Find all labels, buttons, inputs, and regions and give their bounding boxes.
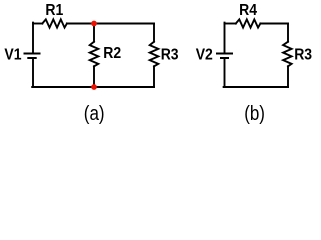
svg-text:R4: R4 bbox=[239, 3, 258, 20]
svg-text:R3: R3 bbox=[294, 47, 312, 64]
wire right upper (a) bbox=[153, 24, 155, 42]
wire left upper (b) bbox=[224, 23, 226, 54]
wire bottom (b) bbox=[224, 86, 288, 88]
junction node bottom (a) bbox=[91, 84, 97, 90]
svg-text:V1: V1 bbox=[4, 47, 21, 64]
wire top-right segment (b) bbox=[260, 23, 288, 25]
wire left lower (b) bbox=[224, 58, 226, 87]
svg-text:(a): (a) bbox=[84, 101, 105, 124]
wire top-right segment (a) bbox=[67, 23, 154, 25]
battery V2 long plate bbox=[217, 53, 232, 55]
battery V1 long plate bbox=[25, 53, 40, 55]
resistor R3 (a) bbox=[150, 42, 159, 67]
wire middle branch upper (a) bbox=[93, 24, 95, 42]
svg-text:R2: R2 bbox=[103, 46, 121, 63]
resistor R3 (b) bbox=[283, 42, 292, 67]
wire left lower (a) bbox=[32, 58, 34, 87]
wire top-left segment (a) bbox=[33, 23, 42, 25]
battery V1 short plate bbox=[28, 57, 35, 59]
wire bottom (a) bbox=[32, 86, 154, 88]
wire right lower (b) bbox=[287, 66, 289, 87]
resistor R2 bbox=[90, 42, 99, 67]
junction node top (a) bbox=[91, 21, 97, 27]
wire middle branch lower (a) bbox=[93, 66, 95, 87]
svg-text:R3: R3 bbox=[161, 47, 179, 64]
resistor R1 bbox=[42, 19, 67, 27]
wire right lower (a) bbox=[153, 66, 155, 87]
wire right upper (b) bbox=[287, 24, 289, 42]
battery V2 short plate bbox=[221, 57, 228, 59]
wire top-left segment (b) bbox=[225, 23, 236, 25]
svg-text:(b): (b) bbox=[244, 101, 265, 124]
svg-text:R1: R1 bbox=[45, 3, 63, 20]
wire left upper (a) bbox=[32, 23, 34, 54]
resistor R4 bbox=[236, 19, 261, 27]
svg-text:V2: V2 bbox=[196, 47, 213, 64]
